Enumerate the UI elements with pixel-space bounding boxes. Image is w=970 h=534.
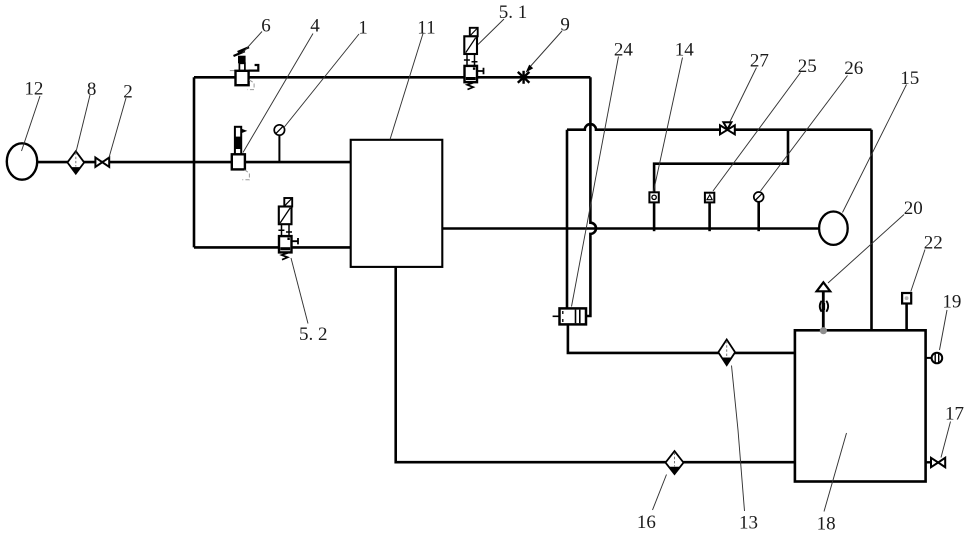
- svg-text:2: 2: [123, 82, 133, 103]
- svg-text:8: 8: [87, 79, 97, 100]
- svg-text:4: 4: [310, 15, 320, 36]
- svg-text:11: 11: [417, 17, 435, 38]
- svg-text:14: 14: [675, 39, 695, 60]
- svg-text:18: 18: [817, 513, 836, 534]
- svg-text:20: 20: [904, 198, 923, 219]
- svg-text:6: 6: [261, 15, 271, 36]
- svg-text:1: 1: [358, 17, 368, 38]
- svg-text:17: 17: [945, 404, 964, 425]
- svg-text:16: 16: [637, 512, 656, 533]
- svg-text:15: 15: [900, 68, 919, 89]
- svg-text:22: 22: [924, 233, 943, 254]
- svg-text:25: 25: [798, 56, 817, 77]
- svg-text:19: 19: [942, 291, 961, 312]
- svg-text:9: 9: [560, 14, 570, 35]
- svg-text:5. 1: 5. 1: [499, 2, 528, 23]
- svg-text:26: 26: [844, 58, 863, 79]
- svg-text:12: 12: [24, 79, 43, 100]
- svg-text:5. 2: 5. 2: [299, 324, 328, 345]
- svg-text:24: 24: [614, 40, 634, 61]
- svg-text:27: 27: [750, 51, 769, 72]
- svg-text:13: 13: [739, 512, 758, 533]
